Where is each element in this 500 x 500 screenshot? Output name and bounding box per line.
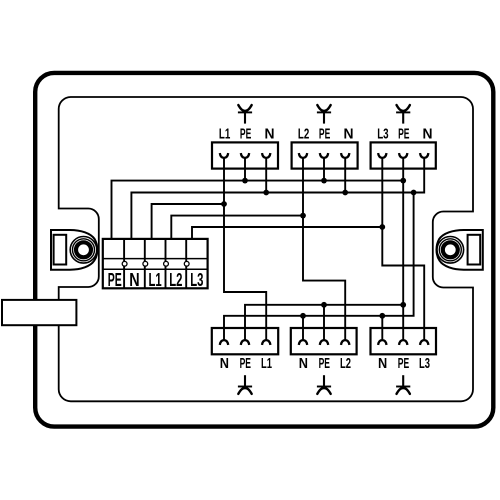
contact X2.2 (PE) — [320, 153, 328, 158]
wire L1 bus (from L1 cell riser to X1 L1) — [152, 204, 224, 239]
cable entry nozzle left — [2, 300, 76, 325]
wire X3 L3 drop to X6 L3 — [382, 158, 424, 341]
wire X1 PE stub — [244, 158, 246, 181]
wire L2 bus (from L2 cell riser to X2 L2) — [171, 216, 303, 239]
svg-text:L2: L2 — [340, 355, 351, 372]
distribution terminal block X0 (PE N L1 L2 L3) — [103, 239, 208, 288]
svg-text:L1: L1 — [219, 125, 231, 142]
connector X6 box (bottom, N PE L3) — [371, 328, 437, 354]
wire PE backbone (X3 PE down to X6 PE) — [402, 158, 404, 341]
wire PE bus top (from PE cell riser to X3 PE) — [112, 181, 404, 239]
junction dot J3 — [400, 178, 406, 184]
contact X5.3 (L2) — [341, 340, 349, 345]
junction dot J6 — [411, 190, 417, 196]
contact X3.1 (L3) — [378, 153, 386, 158]
junction dot J9 — [379, 224, 385, 230]
svg-text:PE: PE — [398, 355, 409, 372]
contact X4.1 (N) — [220, 340, 228, 345]
junction dot J8 — [300, 213, 306, 219]
contact X6.1 (N) — [378, 340, 386, 345]
feeder arrow symbol above X2 — [317, 105, 331, 124]
connector X3 box (top, L3 PE N) — [371, 142, 436, 168]
wire X2 N stub — [344, 158, 346, 193]
feeder arrow symbol above X3 — [396, 105, 410, 124]
svg-text:L1: L1 — [149, 269, 162, 290]
contact X5.1 (N) — [299, 340, 307, 345]
wire PE bus bottom — [245, 305, 403, 341]
right mounting lug — [437, 230, 483, 270]
wire X2 L2 drop to X5 L2 — [303, 158, 345, 341]
junction dot J13 — [379, 313, 385, 319]
feeder arrow symbol below X5 — [317, 375, 331, 394]
svg-text:N: N — [129, 269, 139, 290]
svg-text:PE: PE — [240, 355, 251, 372]
contact X5.2 (PE) — [320, 340, 328, 345]
contact X2.3 (N) — [341, 153, 349, 158]
wire X1 N stub — [265, 158, 267, 193]
connector X5 box (bottom, N PE L2) — [291, 328, 357, 354]
wire L3 bus (from L3 cell riser to X3 L3) — [192, 227, 382, 239]
svg-text:L2: L2 — [169, 269, 182, 290]
contact X6.3 (L3) — [420, 340, 428, 345]
contact X4.3 (L1) — [262, 340, 270, 345]
svg-text:PE: PE — [319, 125, 330, 142]
wire X2 PE stub — [323, 158, 325, 181]
svg-text:N: N — [299, 355, 308, 372]
contact X1.1 (L1) — [220, 153, 228, 158]
contact X1.2 (PE) — [241, 153, 249, 158]
svg-text:L1: L1 — [261, 355, 272, 372]
junction dot J2 — [321, 178, 327, 184]
svg-text:N: N — [344, 125, 354, 142]
contact X6.2 (PE) — [399, 340, 407, 345]
svg-text:L3: L3 — [190, 269, 203, 290]
svg-text:N: N — [265, 125, 275, 142]
feeder arrow symbol above X1 — [238, 105, 252, 124]
junction dot J1 — [242, 178, 248, 184]
svg-text:N: N — [423, 125, 433, 142]
contact X2.1 (L2) — [299, 153, 307, 158]
svg-text:L3: L3 — [419, 355, 430, 372]
connector X4 box (bottom, N PE L1) — [212, 328, 278, 354]
feeder arrow symbol below X4 — [238, 375, 252, 394]
junction dot J11 — [400, 302, 406, 308]
svg-text:L2: L2 — [298, 125, 309, 142]
svg-text:N: N — [378, 355, 387, 372]
junction dot J5 — [342, 190, 348, 196]
wire N bus top (from N cell riser to X3 N) — [131, 158, 424, 239]
wire X5 PE stub — [323, 305, 325, 341]
enclosure case outline — [35, 73, 493, 427]
wire X1 L1 drop to X4 L1 — [224, 158, 266, 341]
connector X2 box (top, L2 PE N) — [292, 142, 358, 168]
feeder arrow symbol below X6 — [396, 375, 410, 394]
svg-text:PE: PE — [319, 355, 330, 372]
wire N backbone drop — [224, 193, 414, 341]
wire X5 N stub — [302, 316, 304, 341]
contact X3.2 (PE) — [399, 153, 407, 158]
svg-text:PE: PE — [398, 125, 409, 142]
svg-text:PE: PE — [240, 125, 251, 142]
left mounting lug — [51, 230, 97, 270]
junction dot J7 — [221, 201, 227, 207]
contact X1.3 (N) — [262, 153, 270, 158]
svg-text:N: N — [220, 355, 229, 372]
connector X1 box (top, L1 PE N) — [212, 142, 278, 168]
junction dot J12 — [300, 313, 306, 319]
svg-text:PE: PE — [108, 269, 122, 290]
inner enclosure wall — [59, 97, 473, 401]
junction dot J10 — [321, 302, 327, 308]
wire X6 N stub — [381, 316, 383, 341]
junction dot J4 — [263, 190, 269, 196]
contact X4.2 (PE) — [241, 340, 249, 345]
svg-text:L3: L3 — [377, 125, 388, 142]
contact X3.3 (N) — [420, 153, 428, 158]
